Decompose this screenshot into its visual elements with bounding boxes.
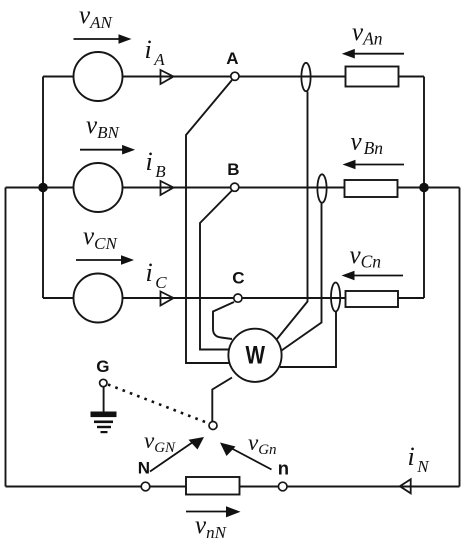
svg-text:n: n — [278, 458, 289, 479]
svg-text:G: G — [96, 357, 109, 376]
source VAN — [74, 52, 123, 101]
arrow vCN — [76, 259, 125, 261]
resistor load C — [346, 291, 399, 307]
node N terminal — [141, 482, 150, 491]
current arrow iA — [161, 70, 174, 84]
coil pickup C — [331, 283, 340, 312]
node n terminal — [278, 482, 287, 491]
arrow vCn — [351, 275, 403, 277]
arrow vGn — [229, 447, 272, 470]
arrowhead vBn — [343, 160, 356, 170]
wire tap from node A to wattmeter — [186, 80, 232, 363]
wire coil C tail to wattmeter — [280, 312, 336, 368]
arrow vnN — [186, 511, 230, 513]
svg-text:N: N — [138, 459, 150, 478]
wire coil B tail to wattmeter — [282, 203, 322, 351]
ground bar 2 — [94, 421, 113, 424]
arrow vAn — [352, 53, 404, 55]
wire row A — [43, 76, 424, 78]
node G terminal — [100, 379, 107, 386]
coil pickup A — [301, 63, 310, 91]
ground bar 1 — [91, 412, 117, 418]
svg-text:W: W — [246, 342, 266, 370]
arrowhead vBN — [122, 145, 135, 155]
wire left inner bus — [42, 77, 44, 299]
arrow vAN — [74, 38, 123, 40]
node B terminal — [231, 183, 239, 191]
wire row C — [43, 297, 424, 299]
wire right link B row to outer bus — [424, 187, 460, 189]
wire tap from node B to wattmeter — [200, 191, 232, 350]
wire left outer bus — [5, 188, 7, 487]
resistor load B — [345, 180, 398, 197]
wire coil A tail to wattmeter — [277, 92, 308, 340]
wattmeter W — [228, 329, 281, 382]
current arrow iC — [161, 292, 174, 306]
coil pickup B — [317, 174, 326, 202]
resistor neutral nN — [186, 477, 240, 495]
source VBN — [74, 163, 123, 212]
ground bar 3 — [97, 426, 111, 428]
wire tap from node C to wattmeter — [213, 302, 234, 339]
node C terminal — [234, 294, 242, 302]
arrowhead vAn — [342, 49, 355, 59]
svg-text:B: B — [227, 160, 239, 179]
star point node — [209, 422, 217, 430]
current arrow iN — [400, 479, 411, 493]
ground bar 4 — [101, 431, 108, 433]
arrowhead vAN — [119, 34, 132, 44]
junction dot right — [419, 183, 429, 193]
wire right outer bus — [459, 188, 461, 487]
arrowhead vCN — [121, 255, 134, 265]
arrowhead vnN — [226, 506, 241, 517]
dotted link G to star point — [108, 385, 207, 423]
arrowhead vGN — [189, 437, 205, 450]
wire wattmeter bottom to star point — [212, 378, 232, 422]
svg-text:A: A — [226, 49, 238, 68]
arrow vBN — [80, 149, 126, 151]
arrow vGN — [150, 442, 193, 472]
source VCN — [74, 274, 123, 323]
wire inner right bus — [423, 77, 425, 299]
node A terminal — [231, 72, 239, 80]
wire ground stem — [103, 387, 105, 413]
wire row B — [6, 187, 425, 189]
wire bottom neutral — [6, 486, 460, 488]
arrowhead vGn — [220, 443, 236, 457]
current arrow iB — [161, 181, 174, 195]
arrowhead vCn — [342, 271, 355, 281]
resistor load A — [346, 67, 399, 87]
arrow vBn — [352, 164, 404, 166]
junction dot left — [38, 183, 48, 193]
svg-text:C: C — [232, 269, 244, 288]
